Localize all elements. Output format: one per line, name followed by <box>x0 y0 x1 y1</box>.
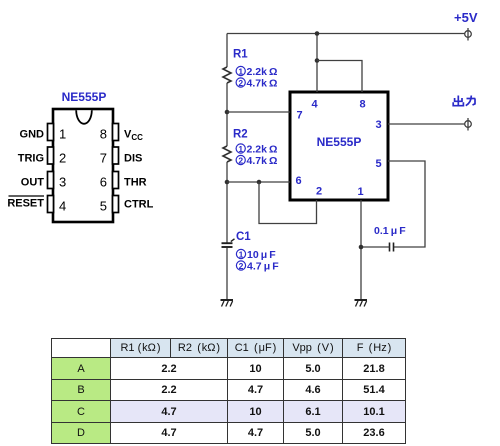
capacitor C1 (electrolytic) <box>222 239 235 247</box>
wire pin 3 (OUT) <box>388 123 465 125</box>
svg-text:RESET: RESET <box>7 198 44 210</box>
resistor R1 <box>223 67 231 83</box>
svg-text:2: 2 <box>239 261 244 271</box>
wire pin 4 (RESET) to +5V rail <box>316 34 318 93</box>
DIP pin 4 stub <box>48 196 54 213</box>
wire +5V top rail <box>227 33 465 35</box>
svg-text:7: 7 <box>296 110 302 122</box>
wire pin 5 (CTRL) branch <box>388 161 425 247</box>
svg-text:4.7k Ω: 4.7k Ω <box>247 78 278 90</box>
node junction pin1/0.1uF <box>359 245 364 250</box>
label R2 value 1 : (1) 2.2k ohm <box>236 144 277 156</box>
capacitor 0.1uF <box>390 243 394 252</box>
terminal output <box>465 118 472 131</box>
wire pin 8 (VCC) <box>317 61 362 93</box>
svg-text:7: 7 <box>100 151 107 166</box>
svg-text:1: 1 <box>59 127 66 142</box>
svg-text:NE555P: NE555P <box>62 90 107 104</box>
wire pin 1 (GND) to ground <box>360 200 362 300</box>
svg-text:6: 6 <box>295 175 301 187</box>
svg-text:1: 1 <box>357 186 363 198</box>
svg-text:10 μ F: 10 μ F <box>247 249 276 261</box>
svg-text:GND: GND <box>20 129 45 141</box>
DIP pin 2 stub <box>48 147 54 164</box>
svg-text:R1: R1 <box>233 49 248 61</box>
node junction pin2 branch <box>257 180 262 185</box>
svg-text:2: 2 <box>316 186 322 198</box>
label C1 value 1 : (1) 10 uF <box>236 249 276 261</box>
svg-text:4.7k Ω: 4.7k Ω <box>247 155 278 167</box>
wire C1 to ground <box>226 248 228 300</box>
wire pin 2 (TRIG) loop <box>259 182 317 224</box>
wire 0.1uF to pin1 wire <box>361 246 390 248</box>
svg-text:NE555P: NE555P <box>317 135 362 149</box>
ground (left) <box>221 300 234 307</box>
DIP pin 5 stub <box>113 196 119 213</box>
svg-text:4: 4 <box>311 99 318 111</box>
svg-text:2: 2 <box>238 155 243 165</box>
node junction pin7 wire <box>225 110 230 115</box>
DIP pin 3 stub <box>48 172 54 189</box>
DIP pin 1 stub <box>48 124 54 141</box>
svg-text:2.2k Ω: 2.2k Ω <box>247 144 278 156</box>
DIP pin 6 stub <box>113 172 119 189</box>
ground (right) <box>355 300 368 307</box>
DIP pin 8 stub <box>113 124 119 141</box>
wire left rail between R2 and C1 <box>226 162 228 243</box>
node junction pin6 wire <box>225 180 230 185</box>
label R1 value 1 : (1) 2.2k ohm <box>236 66 277 78</box>
wire pin 6 (THR) <box>227 181 290 183</box>
terminal +5V <box>465 28 472 41</box>
svg-text:6: 6 <box>100 175 107 190</box>
svg-text:4: 4 <box>59 199 66 214</box>
svg-text:+5V: +5V <box>454 10 478 25</box>
svg-text:TRIG: TRIG <box>18 153 44 165</box>
svg-text:2: 2 <box>59 151 66 166</box>
svg-text:R2: R2 <box>233 129 248 141</box>
svg-text:1: 1 <box>238 144 243 154</box>
svg-text:DIS: DIS <box>124 153 142 165</box>
wire pin 7 (DIS) <box>227 111 290 113</box>
label shutsuryoku (output) kanji DE <box>453 96 475 106</box>
svg-text:VCC: VCC <box>124 129 143 143</box>
svg-text:3: 3 <box>375 119 381 131</box>
svg-text:2: 2 <box>238 78 243 88</box>
svg-text:2.2k Ω: 2.2k Ω <box>247 66 278 78</box>
svg-text:CTRL: CTRL <box>124 199 154 211</box>
svg-text:1: 1 <box>238 66 243 76</box>
svg-text:3: 3 <box>59 175 66 190</box>
svg-text:5: 5 <box>375 158 381 170</box>
svg-text:C1: C1 <box>236 231 251 243</box>
label C1 value 2 : (2) 4.7 uF <box>236 261 279 273</box>
svg-text:0.1 μ F: 0.1 μ F <box>374 225 406 237</box>
svg-text:5: 5 <box>100 199 107 214</box>
svg-text:4.7 μ F: 4.7 μ F <box>247 261 279 273</box>
DIP package U1 body <box>53 109 113 222</box>
node junction rail/pin4 <box>315 31 320 36</box>
node junction pin4/pin8 <box>315 58 320 63</box>
wire left rail between R1 and R2 <box>226 83 228 146</box>
svg-text:OUT: OUT <box>21 177 45 189</box>
svg-text:1: 1 <box>239 249 244 259</box>
label R2 value 2 : (2) 4.7k ohm <box>236 155 277 167</box>
svg-text:THR: THR <box>124 177 147 189</box>
svg-text:8: 8 <box>100 127 107 142</box>
DIP pin 7 stub <box>113 147 119 164</box>
IC U1 NE555P box <box>290 92 388 200</box>
resistor R2 <box>223 146 231 162</box>
svg-text:8: 8 <box>359 99 365 111</box>
label R1 value 2 : (2) 4.7k ohm <box>236 78 277 90</box>
RESET overline <box>9 195 45 197</box>
DIP pin-1 notch <box>76 110 92 124</box>
wire left rail top (rail to R1) <box>226 34 228 68</box>
parameter table <box>51 338 406 444</box>
